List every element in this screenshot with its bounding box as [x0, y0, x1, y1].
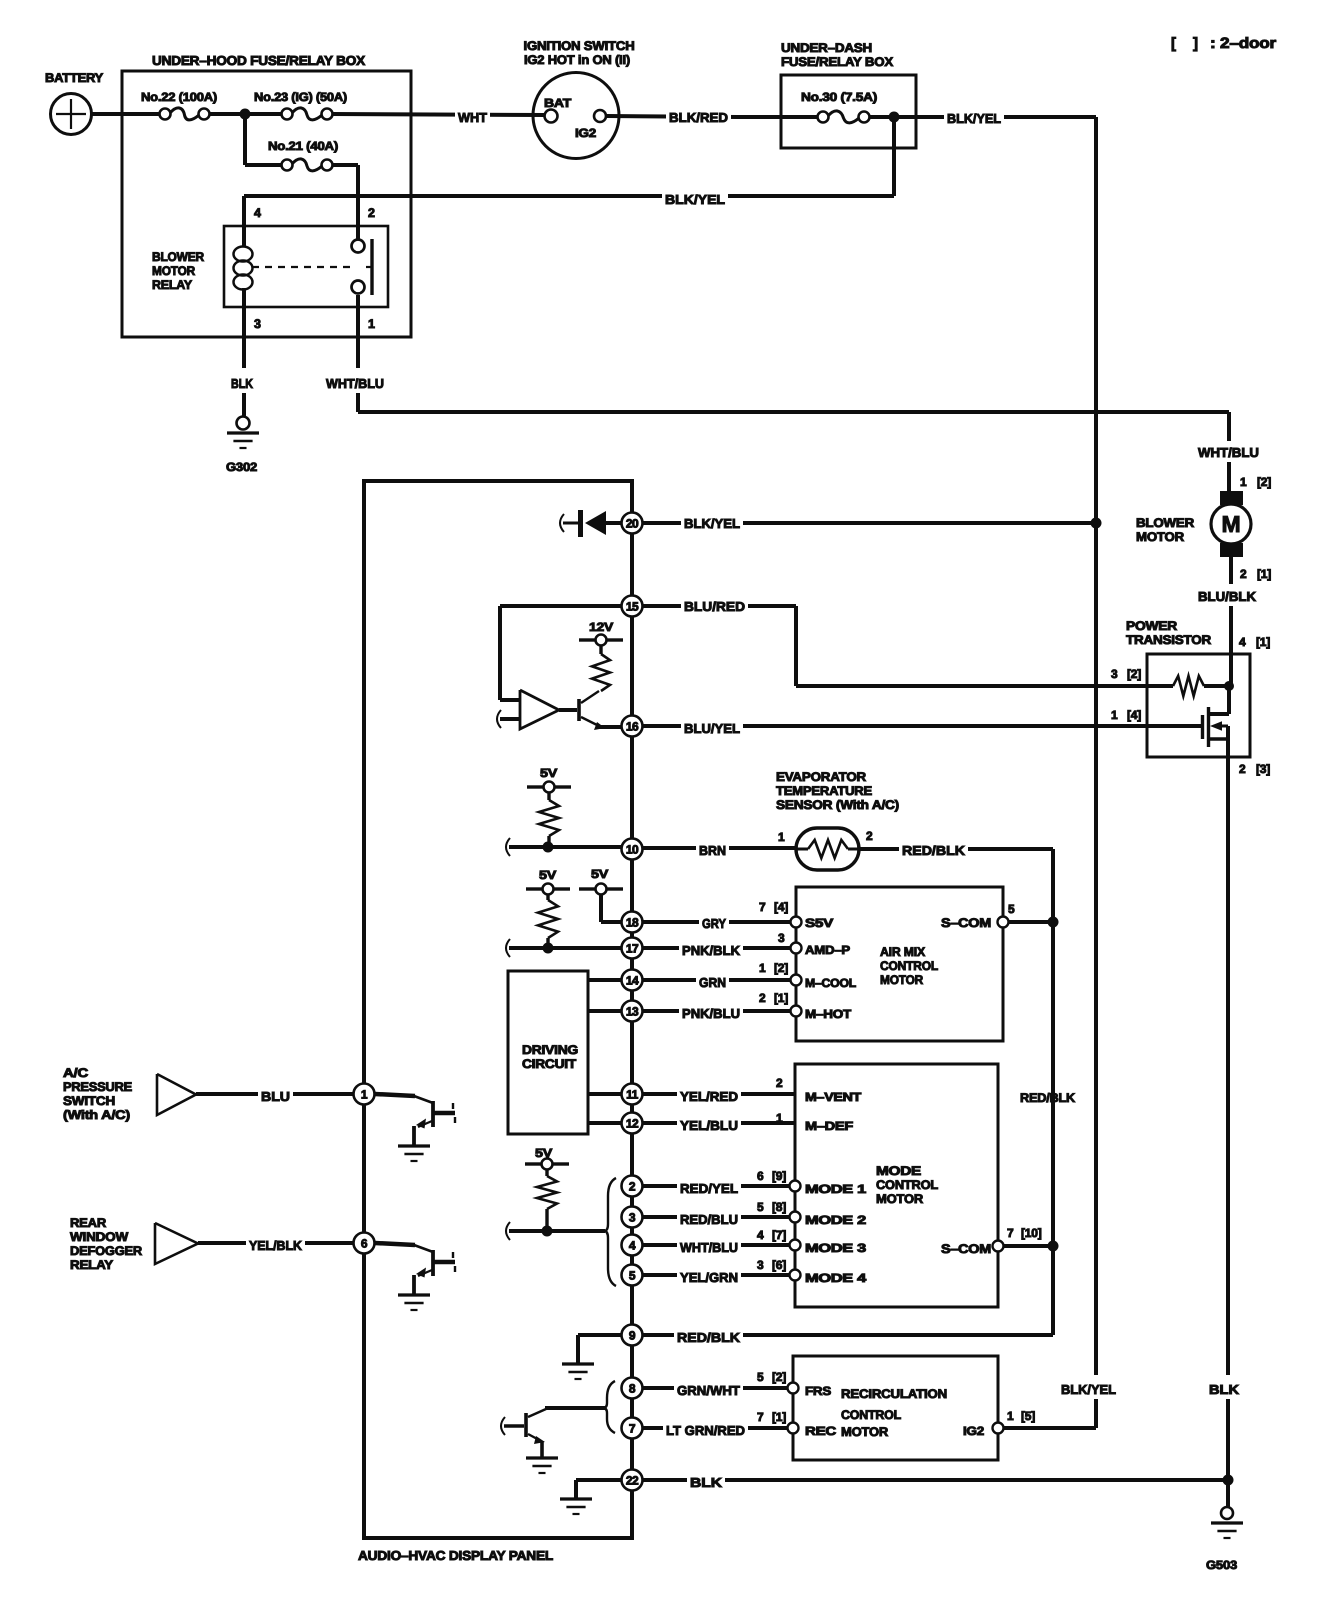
svg-text:FUSE/RELAY BOX: FUSE/RELAY BOX	[781, 55, 894, 69]
svg-text:SWITCH: SWITCH	[63, 1094, 115, 1108]
svg-text:2: 2	[759, 991, 766, 1005]
svg-text:3: 3	[757, 1258, 764, 1272]
svg-text:RED/BLK: RED/BLK	[677, 1330, 741, 1345]
svg-text:BRN: BRN	[699, 843, 726, 858]
svg-text:MOTOR: MOTOR	[880, 973, 923, 987]
svg-text:3: 3	[254, 317, 261, 331]
svg-text:BLK/YEL: BLK/YEL	[1061, 1382, 1116, 1397]
svg-text:2: 2	[866, 829, 873, 843]
svg-text:POWER: POWER	[1126, 619, 1177, 633]
svg-text:PNK/BLK: PNK/BLK	[682, 943, 741, 958]
svg-text:GRN/WHT: GRN/WHT	[677, 1383, 740, 1398]
svg-text:BLU: BLU	[261, 1089, 290, 1104]
svg-text:7: 7	[757, 1410, 764, 1424]
svg-text:2: 2	[629, 1180, 636, 1194]
svg-text:CIRCUIT: CIRCUIT	[522, 1057, 577, 1071]
svg-text:YEL/BLK: YEL/BLK	[249, 1238, 303, 1253]
svg-text:5V: 5V	[591, 867, 608, 881]
svg-text:9: 9	[629, 1329, 636, 1343]
svg-text:CONTROL: CONTROL	[876, 1178, 939, 1192]
svg-text:7: 7	[759, 900, 766, 914]
svg-text:1: 1	[778, 830, 785, 844]
svg-text:5: 5	[757, 1200, 764, 1214]
svg-text:15: 15	[626, 600, 639, 614]
svg-text:[7]: [7]	[772, 1228, 786, 1242]
svg-text:[1]: [1]	[1256, 635, 1270, 649]
svg-text:RED/BLU: RED/BLU	[680, 1212, 738, 1227]
svg-text:No.21 (40A): No.21 (40A)	[268, 139, 338, 153]
svg-text:MODE 2: MODE 2	[805, 1213, 867, 1227]
svg-text:GRN: GRN	[699, 975, 726, 990]
svg-text:No.22 (100A): No.22 (100A)	[141, 90, 217, 104]
svg-text:2: 2	[776, 1076, 783, 1090]
svg-text:MODE 4: MODE 4	[805, 1271, 867, 1285]
svg-text:WHT/BLU: WHT/BLU	[1198, 445, 1259, 460]
svg-text:: 2–door: : 2–door	[1210, 35, 1276, 52]
svg-text:RELAY: RELAY	[70, 1258, 114, 1272]
svg-text:2: 2	[1239, 762, 1246, 776]
svg-text:[5]: [5]	[1021, 1409, 1035, 1423]
svg-text:12: 12	[626, 1117, 639, 1131]
svg-text:WHT/BLU: WHT/BLU	[326, 376, 384, 391]
svg-text:G302: G302	[226, 460, 258, 474]
svg-text:MOTOR: MOTOR	[841, 1425, 888, 1439]
svg-text:[1]: [1]	[772, 1410, 786, 1424]
svg-text:BLU/BLK: BLU/BLK	[1198, 589, 1257, 604]
svg-text:CONTROL: CONTROL	[841, 1408, 902, 1422]
svg-text:[2]: [2]	[1127, 667, 1141, 681]
svg-text:BLK/RED: BLK/RED	[669, 110, 728, 125]
svg-text:RECIRCULATION: RECIRCULATION	[841, 1387, 947, 1401]
svg-text:[1]: [1]	[1257, 567, 1271, 581]
svg-text:20: 20	[626, 517, 639, 531]
svg-text:4: 4	[757, 1228, 764, 1242]
svg-text:3: 3	[778, 931, 785, 945]
svg-text:M–VENT: M–VENT	[805, 1090, 862, 1104]
svg-text:FRS: FRS	[805, 1384, 831, 1398]
svg-text:PRESSURE: PRESSURE	[63, 1080, 132, 1094]
svg-text:BLK: BLK	[690, 1475, 723, 1490]
svg-text:MODE 1: MODE 1	[805, 1182, 867, 1196]
svg-text:BLK: BLK	[231, 376, 254, 391]
svg-text:[4]: [4]	[1127, 708, 1141, 722]
svg-text:[10]: [10]	[1021, 1226, 1042, 1240]
svg-text:IG2: IG2	[963, 1424, 985, 1438]
svg-text:2: 2	[1240, 567, 1247, 581]
svg-text:CONTROL: CONTROL	[880, 959, 939, 973]
svg-text:[1]: [1]	[774, 991, 788, 1005]
svg-text:5V: 5V	[539, 868, 556, 882]
svg-text:G503: G503	[1206, 1558, 1238, 1572]
svg-text:RELAY: RELAY	[152, 278, 193, 292]
svg-text:LT GRN/RED: LT GRN/RED	[666, 1423, 745, 1438]
svg-text:18: 18	[626, 916, 639, 930]
svg-text:UNDER–HOOD FUSE/RELAY BOX: UNDER–HOOD FUSE/RELAY BOX	[152, 53, 366, 68]
svg-text:BLK/YEL: BLK/YEL	[684, 516, 740, 531]
svg-text:BLU/YEL: BLU/YEL	[684, 721, 740, 736]
svg-text:[: [	[1171, 35, 1176, 52]
svg-text:1: 1	[776, 1111, 783, 1125]
svg-text:1: 1	[361, 1088, 368, 1102]
svg-text:GRY: GRY	[702, 916, 726, 931]
svg-text:6: 6	[361, 1237, 368, 1251]
svg-text:[2]: [2]	[1257, 475, 1271, 489]
svg-text:YEL/RED: YEL/RED	[680, 1089, 738, 1104]
svg-text:[3]: [3]	[1256, 762, 1270, 776]
svg-text:3: 3	[1111, 667, 1118, 681]
svg-text:AUDIO–HVAC DISPLAY PANEL: AUDIO–HVAC DISPLAY PANEL	[358, 1548, 553, 1563]
svg-text:BLOWER: BLOWER	[152, 250, 204, 264]
svg-text:REAR: REAR	[70, 1216, 106, 1230]
svg-text:13: 13	[626, 1005, 639, 1019]
svg-text:M–COOL: M–COOL	[805, 976, 856, 990]
svg-text:1: 1	[1240, 475, 1247, 489]
svg-text:YEL/BLU: YEL/BLU	[680, 1118, 738, 1133]
svg-text:S–COM: S–COM	[941, 916, 991, 930]
svg-text:8: 8	[629, 1382, 636, 1396]
svg-text:17: 17	[626, 942, 639, 956]
svg-text:[4]: [4]	[774, 900, 788, 914]
svg-text:UNDER–DASH: UNDER–DASH	[781, 41, 872, 55]
svg-text:RED/BLK: RED/BLK	[902, 843, 966, 858]
svg-text:[8]: [8]	[772, 1200, 786, 1214]
svg-text:MOTOR: MOTOR	[152, 264, 195, 278]
svg-text:BLOWER: BLOWER	[1136, 516, 1194, 530]
svg-text:3: 3	[629, 1211, 636, 1225]
svg-text:BLK/YEL: BLK/YEL	[947, 111, 1001, 126]
svg-text:SENSOR (With A/C): SENSOR (With A/C)	[776, 798, 899, 812]
svg-text:BATTERY: BATTERY	[45, 71, 104, 85]
svg-text:M–DEF: M–DEF	[805, 1119, 853, 1133]
svg-text:MOTOR: MOTOR	[1136, 530, 1184, 544]
svg-text:4: 4	[254, 206, 261, 220]
svg-text:YEL/GRN: YEL/GRN	[680, 1270, 738, 1285]
svg-text:[2]: [2]	[774, 961, 788, 975]
svg-text:M–HOT: M–HOT	[805, 1007, 852, 1021]
svg-text:2: 2	[368, 206, 375, 220]
svg-text:IGNITION SWITCH: IGNITION SWITCH	[524, 39, 635, 53]
svg-text:TEMPERATURE: TEMPERATURE	[776, 784, 872, 798]
svg-text:S–COM: S–COM	[941, 1242, 991, 1256]
svg-text:MODE: MODE	[876, 1164, 921, 1178]
svg-text:EVAPORATOR: EVAPORATOR	[776, 770, 866, 784]
svg-text:BLK: BLK	[1209, 1382, 1240, 1397]
svg-text:REC: REC	[805, 1424, 837, 1438]
svg-text:MODE 3: MODE 3	[805, 1241, 867, 1255]
svg-text:5: 5	[1008, 902, 1015, 916]
svg-text:WINDOW: WINDOW	[70, 1230, 128, 1244]
svg-text:BLU/RED: BLU/RED	[684, 599, 745, 614]
svg-text:No.23 (IG) (50A): No.23 (IG) (50A)	[254, 90, 347, 104]
svg-text:MOTOR: MOTOR	[876, 1192, 923, 1206]
svg-text:A/C: A/C	[63, 1066, 88, 1080]
svg-text:AMD–P: AMD–P	[805, 943, 850, 957]
svg-text:7: 7	[1007, 1226, 1014, 1240]
svg-text:16: 16	[626, 720, 639, 734]
svg-text:No.30 (7.5A): No.30 (7.5A)	[801, 90, 877, 104]
svg-text:7: 7	[629, 1422, 636, 1436]
svg-text:RED/BLK: RED/BLK	[1020, 1091, 1075, 1105]
svg-text:WHT/BLU: WHT/BLU	[680, 1240, 738, 1255]
svg-text:6: 6	[757, 1169, 764, 1183]
svg-text:BLK/YEL: BLK/YEL	[665, 192, 725, 207]
svg-text:1: 1	[759, 961, 766, 975]
svg-text:DEFOGGER: DEFOGGER	[70, 1244, 142, 1258]
svg-text:5: 5	[629, 1269, 636, 1283]
svg-text:]: ]	[1193, 35, 1198, 52]
svg-text:IG2 HOT in ON (II): IG2 HOT in ON (II)	[524, 53, 630, 67]
svg-text:12V: 12V	[589, 620, 613, 634]
svg-text:IG2: IG2	[575, 126, 597, 140]
svg-text:1: 1	[368, 317, 375, 331]
svg-text:22: 22	[626, 1474, 639, 1488]
svg-text:BAT: BAT	[544, 96, 572, 110]
svg-text:5: 5	[757, 1370, 764, 1384]
svg-text:WHT: WHT	[458, 110, 487, 125]
svg-text:TRANSISTOR: TRANSISTOR	[1126, 633, 1211, 647]
svg-text:4: 4	[629, 1239, 636, 1253]
svg-text:RED/YEL: RED/YEL	[680, 1181, 738, 1196]
svg-text:M: M	[1222, 511, 1241, 537]
svg-text:5V: 5V	[540, 766, 557, 780]
svg-text:PNK/BLU: PNK/BLU	[682, 1006, 740, 1021]
svg-text:[6]: [6]	[772, 1258, 786, 1272]
svg-text:11: 11	[626, 1088, 639, 1102]
svg-text:[2]: [2]	[772, 1370, 786, 1384]
svg-text:[9]: [9]	[772, 1169, 786, 1183]
svg-text:(With A/C): (With A/C)	[63, 1108, 130, 1122]
svg-text:DRIVING: DRIVING	[522, 1043, 578, 1057]
svg-text:1: 1	[1111, 708, 1118, 722]
svg-text:1: 1	[1007, 1409, 1014, 1423]
svg-text:14: 14	[626, 974, 639, 988]
svg-text:AIR MIX: AIR MIX	[880, 945, 926, 959]
svg-text:4: 4	[1239, 635, 1246, 649]
svg-text:10: 10	[626, 843, 639, 857]
svg-text:S5V: S5V	[805, 916, 833, 930]
